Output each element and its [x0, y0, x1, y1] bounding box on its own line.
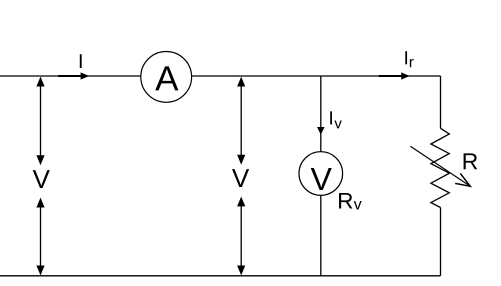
wire right vertical lower	[440, 208, 442, 276]
ammeter A circle	[141, 52, 192, 103]
ammeter A letter	[155, 66, 178, 90]
current arrow Iv	[317, 127, 325, 135]
label R	[464, 153, 478, 169]
voltage arrow V left upper	[36, 77, 44, 166]
wire bottom horizontal	[0, 275, 441, 277]
label V middle	[232, 169, 249, 187]
voltage arrow V left lower	[36, 198, 44, 276]
resistor R variable arrow	[410, 146, 470, 186]
label V left	[33, 170, 50, 188]
voltmeter V circle	[299, 152, 343, 196]
wire voltmeter branch	[320, 76, 322, 276]
label Iv	[330, 111, 342, 128]
label I	[80, 54, 82, 68]
current arrow Ir	[379, 72, 410, 79]
voltmeter V letter	[311, 168, 332, 190]
label Rv	[339, 193, 362, 209]
label Ir	[405, 51, 413, 67]
current arrow I	[58, 72, 89, 79]
wire right vertical upper	[440, 76, 442, 128]
voltage arrow V middle upper	[237, 77, 245, 165]
resistor R zigzag	[431, 128, 449, 207]
voltage arrow V middle lower	[237, 197, 245, 276]
wire top horizontal	[0, 75, 441, 77]
